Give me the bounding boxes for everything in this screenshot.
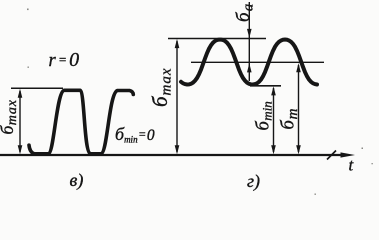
sigma_max dimension arrow (left diagram) [18,89,23,155]
peak level line (right diagram) [168,38,266,40]
mean level line (right diagram) [191,61,324,63]
label sigma_m (rotated) [279,108,301,129]
label sigma_max (left diagram, rotated) [0,99,20,134]
label sigma_a (rotated) [233,4,256,22]
svg-text:г): г) [247,171,260,192]
axis arrowhead [341,152,356,157]
axis break mark [327,151,336,160]
label sigma_max (right diagram, rotated) [148,67,175,107]
sigma_a dimension arrow (outside arrows) [247,2,252,81]
sine waveform (right diagram) [181,40,317,85]
sigma_max dimension arrow (right diagram) [175,39,180,154]
pulsating waveform (left diagram, r=0 cycle) [29,90,133,154]
label sigma_min (right diagram, rotated) [254,101,275,130]
svg-text:в): в) [70,170,84,191]
sigma_max tick line (left diagram) [11,87,63,89]
sigma_min dimension arrow (right diagram) [271,86,276,154]
sigma_m dimension arrow (right diagram) [296,63,301,154]
scan specks [27,9,373,195]
trough level tick (right diagram) [250,85,281,87]
time axis t [0,154,342,156]
